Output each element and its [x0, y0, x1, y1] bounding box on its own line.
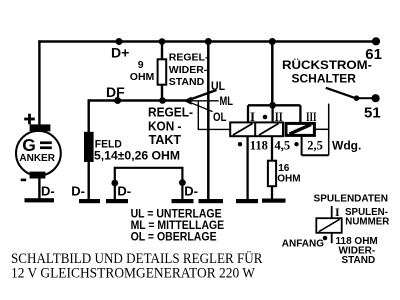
- svg-text:Wdg.: Wdg.: [332, 139, 361, 153]
- svg-text:OL = OBERLAGE: OL = OBERLAGE: [131, 231, 217, 243]
- wire box 2,5 bottom: [302, 154, 329, 156]
- node relay feed top: [269, 38, 276, 45]
- wire box 2,5 left: [301, 137, 303, 156]
- svg-text:D-: D-: [117, 184, 131, 199]
- svg-text:ANKER: ANKER: [19, 153, 55, 164]
- label - (minus): [21, 179, 27, 182]
- wire vertical to switch arm: [328, 104, 330, 156]
- svg-text:ANFANG: ANFANG: [282, 238, 324, 249]
- svg-text:4,5: 4,5: [275, 138, 291, 152]
- ground drop A: [236, 199, 258, 203]
- node x208 top: [205, 38, 212, 45]
- label + (plus): [24, 118, 35, 121]
- svg-text:OHM: OHM: [130, 71, 155, 83]
- svg-text:I: I: [335, 205, 340, 219]
- wire band right exit: [316, 128, 329, 130]
- dot winding start I: [238, 142, 242, 146]
- wire drop C above band: [299, 105, 301, 122]
- legend coil diagonal: [319, 219, 340, 231]
- wire thin from contact to coil I (L shape): [198, 101, 230, 130]
- svg-text:TAKT: TAKT: [149, 132, 182, 147]
- svg-text:UL = UNTERLAGE: UL = UNTERLAGE: [131, 209, 222, 221]
- svg-text:D+: D+: [111, 44, 129, 60]
- svg-text:SCHALTER: SCHALTER: [292, 71, 357, 85]
- svg-text:NUMMER: NUMMER: [345, 216, 390, 227]
- svg-text:STAND: STAND: [169, 76, 205, 88]
- legend wire bottom: [331, 233, 333, 243]
- svg-text:OHM: OHM: [277, 174, 300, 185]
- svg-text:UL: UL: [211, 79, 225, 93]
- contact blob regel-kontakt: [184, 97, 192, 105]
- coil band divider: [254, 122, 256, 136]
- node coil feed: [269, 102, 276, 109]
- wire drop A below band to ground: [246, 137, 248, 201]
- ground bracket left: [106, 199, 128, 203]
- terminal 51: [372, 94, 380, 102]
- svg-text:D-: D-: [71, 184, 85, 199]
- svg-text:ML: ML: [220, 94, 234, 108]
- dot anfang: [323, 236, 328, 241]
- generator circle G anker: [16, 131, 61, 176]
- ground generator: [25, 198, 55, 202]
- field coil FELD (black bar): [84, 132, 94, 162]
- wire drop B below band to resistor 16: [271, 137, 273, 161]
- generator bottom terminal: [30, 172, 46, 179]
- svg-text:RÜCKSTROM-: RÜCKSTROM-: [282, 57, 372, 72]
- wire coil top horizontal: [248, 104, 300, 106]
- coil III diagonal thick: [290, 125, 312, 135]
- node switch contact: [354, 95, 360, 101]
- wire resistor top: [161, 42, 163, 61]
- wire DF horizontal: [89, 99, 187, 101]
- wire x208 vertical to ground: [207, 42, 210, 201]
- svg-text:REGEL-: REGEL-: [148, 105, 193, 120]
- svg-text:118: 118: [250, 138, 268, 152]
- wire resistor 16 bottom: [271, 186, 273, 198]
- wire drop A above band: [247, 105, 249, 122]
- wire top rail D+: [38, 40, 376, 42]
- resistor 16 ohm: [268, 161, 276, 187]
- wire field top: [87, 99, 89, 132]
- node resistor bottom junction: [159, 97, 166, 104]
- wire field bottom: [87, 162, 89, 201]
- svg-text:STAND: STAND: [342, 255, 376, 266]
- wire generator bottom: [38, 179, 40, 200]
- generator top terminal: [30, 124, 51, 131]
- terminal 61: [372, 37, 380, 45]
- bracket wire (regler frame): [115, 168, 183, 200]
- svg-text:REGEL-: REGEL-: [169, 52, 209, 64]
- ground bracket right: [172, 199, 194, 203]
- contact line OL (thin): [189, 102, 213, 112]
- svg-text:FELD: FELD: [95, 139, 122, 151]
- dot coil I: [263, 115, 268, 120]
- coil II diagonal: [259, 124, 279, 136]
- svg-text:16: 16: [278, 163, 290, 174]
- svg-text:ML = MITTELLAGE: ML = MITTELLAGE: [131, 220, 225, 232]
- wire drop B above band: [271, 105, 273, 122]
- node D- bracket left: [111, 180, 118, 187]
- node D+: [116, 38, 123, 45]
- node D- bracket right: [179, 179, 186, 186]
- svg-text:51: 51: [364, 104, 381, 121]
- wire relay feed drop: [271, 42, 274, 106]
- contact line ML (thin): [189, 100, 219, 102]
- ground field: [79, 199, 100, 203]
- node resistor top: [159, 38, 166, 45]
- svg-text:5,14±0,26 OHM: 5,14±0,26 OHM: [94, 150, 180, 162]
- svg-text:WIDER-: WIDER-: [169, 64, 208, 76]
- svg-text:SPULENDATEN: SPULENDATEN: [314, 193, 389, 205]
- ground x208: [199, 199, 224, 203]
- svg-text:DF: DF: [106, 84, 125, 100]
- svg-text:12 V GLEICHSTROMGENERATOR 220: 12 V GLEICHSTROMGENERATOR 220 W: [11, 265, 256, 281]
- ground resistor 16: [262, 199, 286, 203]
- wire resistor bottom: [161, 85, 163, 101]
- resistor regel-widerstand 9 ohm: [158, 59, 167, 84]
- svg-text:D-: D-: [184, 183, 198, 198]
- wire generator drop: [38, 40, 40, 125]
- contact arm to UL: [186, 90, 217, 101]
- legend coil box: [316, 218, 341, 233]
- wire switch to terminal 51: [357, 97, 373, 99]
- coil III bold cell: [286, 123, 314, 135]
- legend wire top: [331, 206, 333, 218]
- svg-text:OL: OL: [213, 110, 227, 124]
- svg-text:2,5: 2,5: [307, 138, 323, 152]
- label = (two bars): [40, 141, 52, 144]
- svg-text:III: III: [306, 109, 317, 124]
- switch arm rueckstromschalter: [326, 88, 355, 98]
- coil I diagonal: [233, 124, 253, 136]
- svg-text:D-: D-: [41, 183, 55, 198]
- coil band cells I and II: [230, 122, 283, 136]
- svg-text:9: 9: [138, 59, 144, 71]
- node DF: [114, 97, 121, 104]
- dot winding start III: [294, 142, 298, 146]
